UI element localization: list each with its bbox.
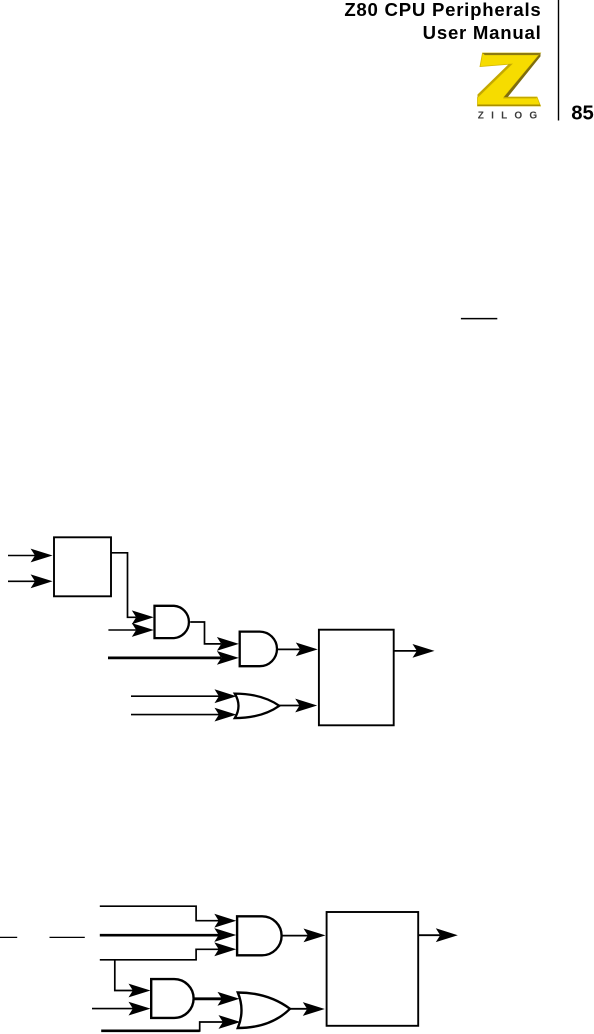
flip-flop FF1 xyxy=(54,537,111,596)
wire bottom net to U6 pin 2 xyxy=(101,1029,200,1032)
wire branch down to AND U5 xyxy=(115,959,133,991)
dash segment of net IEI (right) xyxy=(50,936,85,938)
wire input 2 to AND U4 xyxy=(100,934,219,937)
wire input E to OR U3 pin 1 xyxy=(131,695,219,697)
wire input D to U2 pin 2 xyxy=(108,657,221,660)
wire M2 output xyxy=(418,934,440,936)
arrowhead into U6 pin 2 xyxy=(219,1015,241,1029)
wire input to U5 pin 2 xyxy=(92,1008,133,1010)
header title line 2 xyxy=(423,22,542,43)
svg-text:ZILOG: ZILOG xyxy=(478,110,545,121)
wire M1 output xyxy=(394,650,417,652)
Zilog logo Z mark xyxy=(478,53,541,106)
wire U5 output to OR U6 xyxy=(194,997,222,1000)
wire input B to FF1 xyxy=(8,580,36,582)
and-gate U2 xyxy=(240,632,277,667)
and-gate U1 xyxy=(155,606,189,638)
arrowhead into U5 pin 2 xyxy=(129,1002,151,1016)
arrowhead into M1 pin 1 xyxy=(296,643,318,657)
overbar for invisible signal name xyxy=(461,318,497,320)
arrowhead into U1 pin 2 xyxy=(132,623,154,637)
wire U2 output to box M1 xyxy=(277,648,300,650)
or-gate U6 xyxy=(238,993,290,1029)
arrowhead into U5 pin 1 xyxy=(129,984,151,998)
arrowhead into U4 pin 3 xyxy=(214,942,236,956)
wire input 1 to AND U4 xyxy=(100,906,219,921)
or-gate U3 xyxy=(235,694,279,719)
wire U6 output to box M2 xyxy=(290,1008,307,1010)
svg-text:User Manual: User Manual xyxy=(423,22,542,43)
svg-text:Z80 CPU Peripherals: Z80 CPU Peripherals xyxy=(344,0,541,20)
header vertical rule xyxy=(558,0,560,121)
wire input A to FF1 xyxy=(8,555,36,557)
wire input C to U1 pin 2 xyxy=(108,629,136,631)
arrowhead into U2 pin 1 xyxy=(217,637,239,651)
wire input F to OR U3 pin 2 xyxy=(131,714,219,716)
box M2 xyxy=(327,912,419,1026)
arrowhead input A xyxy=(31,549,53,563)
page number 85 xyxy=(571,102,594,124)
arrowhead into U2 pin 2 xyxy=(217,651,239,665)
wire U1 output to AND U2 xyxy=(190,622,221,644)
and-gate U4 xyxy=(237,916,282,955)
arrowhead into U6 pin 1 xyxy=(218,992,240,1006)
Zilog logo wordmark ZILOG xyxy=(478,110,545,121)
wire U4 output to box M2 xyxy=(282,935,308,937)
svg-text:85: 85 xyxy=(571,102,594,124)
arrowhead into M2 pin 1 xyxy=(304,929,326,943)
wire input 3 to AND U4 xyxy=(100,949,219,960)
wire riser to U6 pin 2 xyxy=(200,1022,223,1032)
arrowhead into U4 pin 1 xyxy=(214,914,236,928)
arrowhead into U1 pin 1 xyxy=(132,610,154,624)
and-gate U5 xyxy=(151,979,193,1018)
header title line 1 xyxy=(344,0,541,20)
arrowhead into U3 pin 2 xyxy=(215,708,237,722)
box M1 xyxy=(319,630,394,726)
arrowhead M2 output xyxy=(436,928,458,942)
arrowhead into U3 pin 1 xyxy=(215,689,237,703)
wire FF1 output to AND U1 xyxy=(111,553,136,618)
wire U3 output to box M1 xyxy=(279,705,300,707)
arrowhead input B xyxy=(31,574,53,588)
arrowhead M1 output xyxy=(413,644,435,658)
arrowhead into U4 pin 2 xyxy=(214,928,236,942)
arrowhead into M1 pin 2 xyxy=(295,699,317,713)
dash segment of net IEI (left) xyxy=(0,936,17,938)
arrowhead into M2 pin 2 xyxy=(303,1002,325,1016)
